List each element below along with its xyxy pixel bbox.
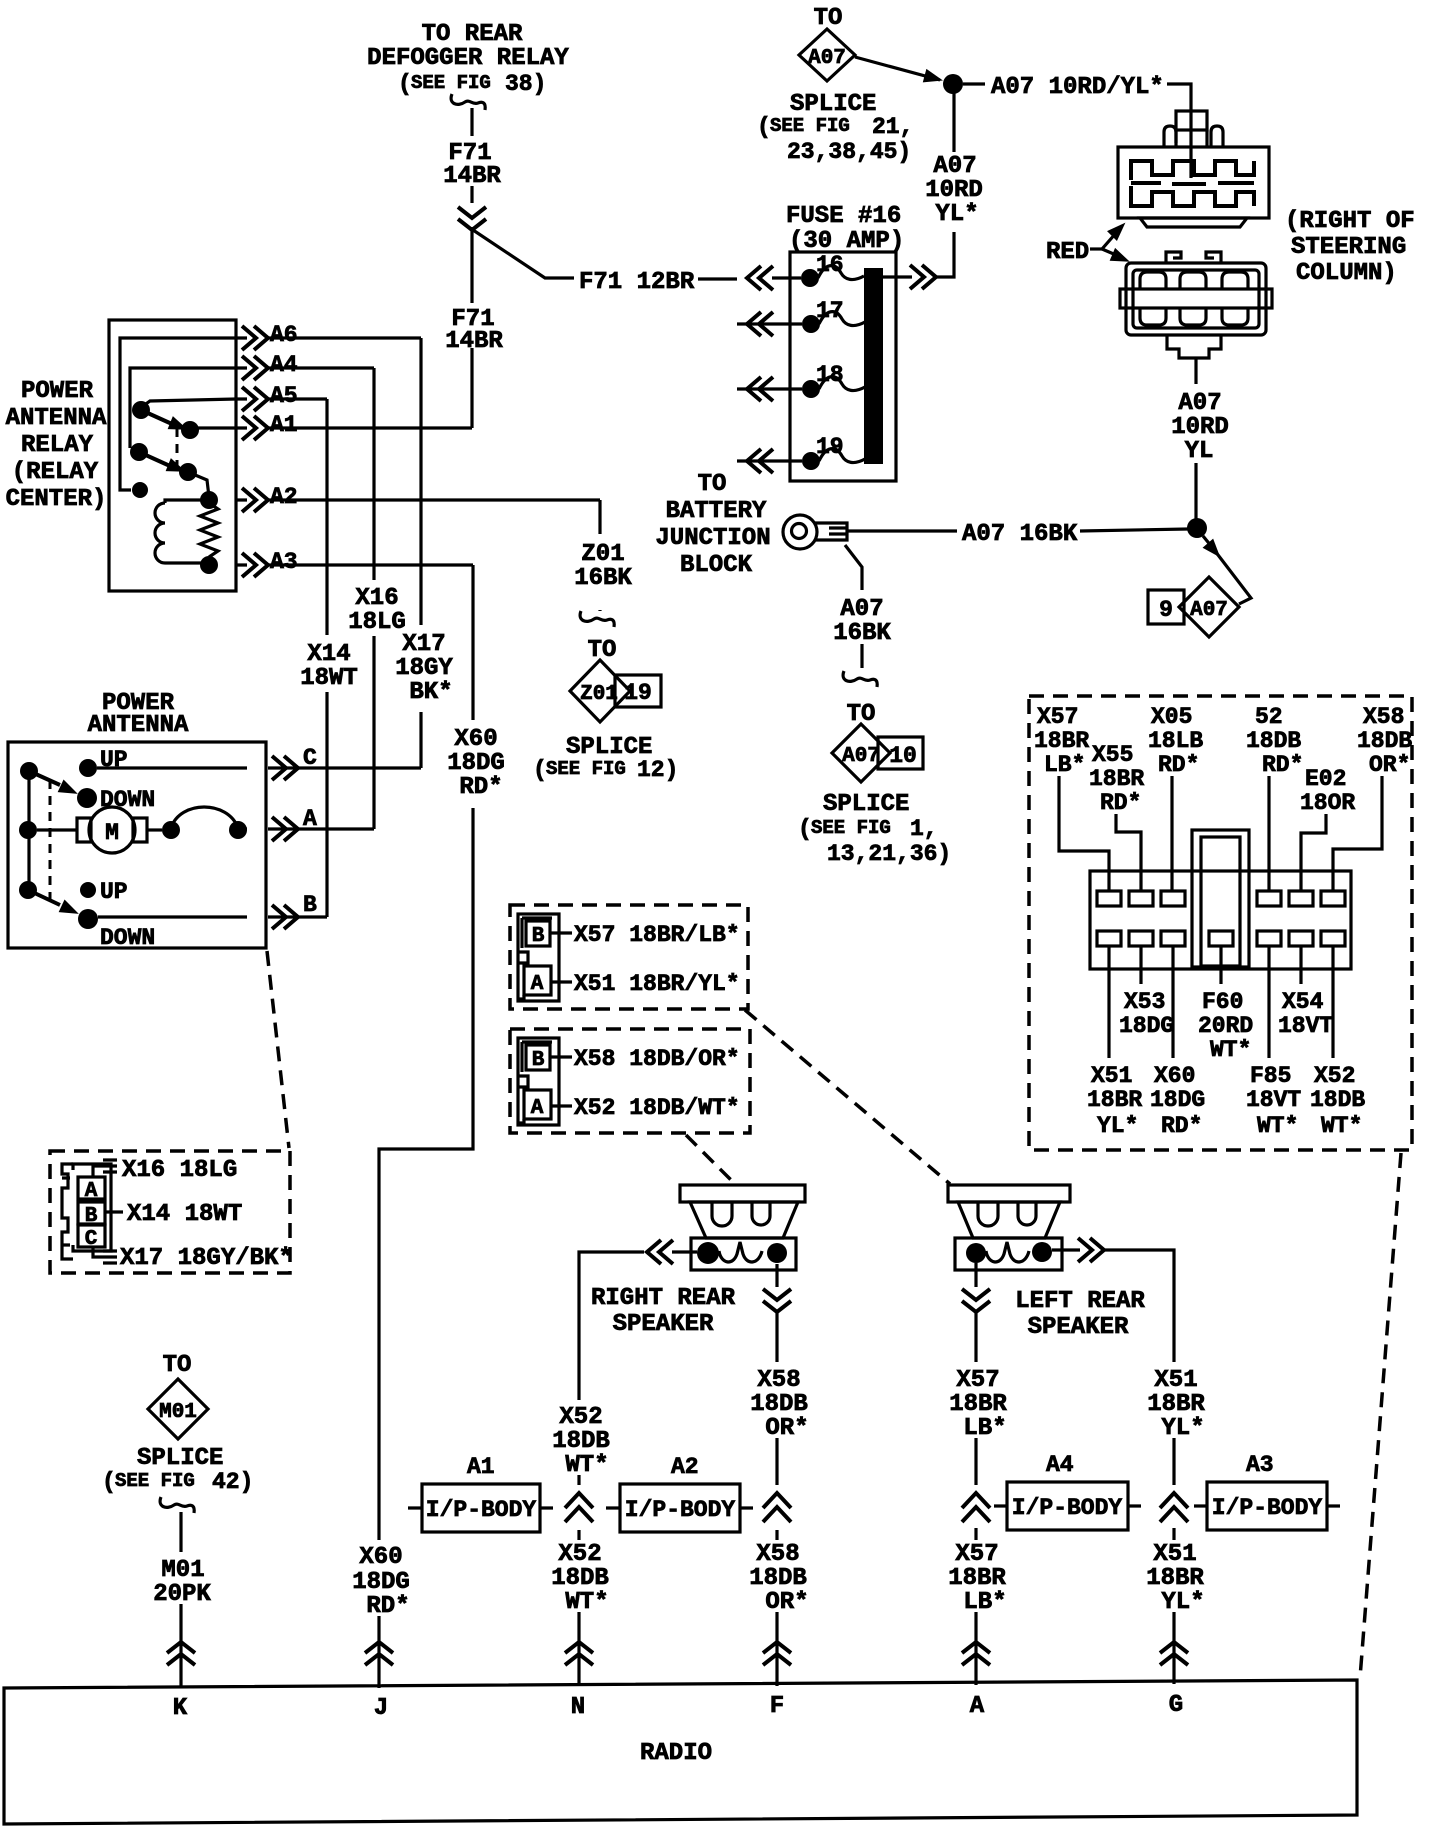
svg-text:18WT: 18WT	[300, 665, 358, 692]
connector box X58/X52 (dashed)	[510, 1029, 750, 1133]
svg-text:LB*: LB*	[1044, 752, 1085, 778]
fuse bus bar	[864, 268, 883, 464]
svg-text:I/P-BODY: I/P-BODY	[1212, 1495, 1323, 1521]
svg-text:WT*: WT*	[1257, 1113, 1298, 1139]
dashed link box1 to left speaker	[745, 1010, 950, 1184]
wire pin B from DOWN contact	[98, 915, 327, 918]
svg-text:A07: A07	[842, 745, 880, 768]
svg-text:18DB: 18DB	[749, 1565, 807, 1592]
svg-text:A07 16BK: A07 16BK	[962, 521, 1078, 548]
svg-text:ANTENNA: ANTENNA	[6, 405, 107, 432]
svg-text:M01: M01	[161, 1557, 204, 1584]
svg-text:18BR: 18BR	[1147, 1391, 1205, 1418]
wire break Z01	[580, 611, 614, 627]
svg-text:RD*: RD*	[459, 774, 502, 801]
svg-text:18BR: 18BR	[1089, 766, 1144, 792]
svg-text:21,: 21,	[872, 114, 913, 140]
svg-text:JUNCTION: JUNCTION	[655, 525, 770, 552]
wire X51 pin down	[1107, 946, 1110, 1058]
label X54 18VT	[1278, 989, 1333, 1039]
label SPLICE (SEE FIG 21, 23,38,45)	[757, 91, 913, 165]
svg-text:BATTERY: BATTERY	[666, 498, 767, 525]
splice M01	[148, 1352, 208, 1439]
svg-text:18LB: 18LB	[1148, 728, 1203, 754]
junction dot A07	[1187, 518, 1207, 538]
label 52 18DB RD*	[1246, 704, 1303, 778]
connector body B/A 2	[518, 1038, 559, 1125]
connector box X57/X51 (dashed)	[510, 905, 748, 1009]
label E02 18OR	[1300, 766, 1355, 816]
label SPLICE (SEE FIG 42)	[102, 1445, 253, 1495]
wire X54 pin down	[1299, 946, 1302, 984]
radio inline connector on K	[167, 1642, 195, 1665]
svg-text:TO: TO	[163, 1352, 192, 1379]
antenna connector pin C	[78, 1225, 105, 1247]
svg-text:B: B	[532, 1049, 545, 1072]
svg-text:18DG: 18DG	[447, 750, 505, 777]
inline connector I/P row on wire G	[1160, 1493, 1188, 1522]
wire F85 pin down	[1267, 946, 1270, 1058]
svg-text:DEFOGGER RELAY: DEFOGGER RELAY	[367, 45, 569, 72]
svg-text:9: 9	[1159, 597, 1173, 623]
svg-text:M: M	[105, 820, 119, 846]
svg-text:18DB: 18DB	[552, 1428, 610, 1455]
svg-text:A07: A07	[1178, 390, 1221, 417]
svg-text:LEFT REAR: LEFT REAR	[1015, 1288, 1145, 1315]
splice Z01-19 diamond	[570, 637, 661, 722]
label TO REAR DEFOGGER RELAY	[367, 21, 569, 97]
pin B X57	[526, 921, 550, 946]
svg-text:UP: UP	[100, 879, 128, 905]
svg-text:G: G	[1169, 1692, 1183, 1719]
power antenna relay box	[109, 320, 236, 591]
radio inline connector on G	[1160, 1642, 1188, 1665]
label X57 18BR LB*	[1034, 704, 1089, 778]
svg-text:A6: A6	[270, 322, 298, 348]
svg-text:RD*: RD*	[1161, 1113, 1202, 1139]
svg-text:X05: X05	[1151, 704, 1192, 730]
svg-text:I/P-BODY: I/P-BODY	[625, 1497, 736, 1523]
svg-text:WT*: WT*	[1321, 1113, 1362, 1139]
label SPLICE (SEE FIG 12)	[533, 734, 678, 783]
left rear speaker	[948, 1185, 1070, 1270]
svg-text:SPLICE: SPLICE	[823, 791, 909, 818]
connector pins top row	[1097, 891, 1345, 906]
splice junction dot A07	[943, 74, 963, 94]
svg-text:X57 18BR/LB*: X57 18BR/LB*	[574, 922, 740, 948]
svg-text:B: B	[303, 892, 317, 918]
svg-text:A: A	[531, 1097, 544, 1120]
svg-text:N: N	[571, 1694, 585, 1721]
dashed link antenna box to connector box	[267, 951, 289, 1148]
svg-text:FUSE #16: FUSE #16	[786, 203, 901, 230]
steering column lower connector	[1120, 252, 1272, 358]
svg-text:SPLICE: SPLICE	[790, 91, 876, 118]
svg-text:23,38,45): 23,38,45)	[787, 139, 911, 165]
dashed link radio connector box to radio	[1360, 1153, 1401, 1678]
antenna switch pole column	[27, 771, 30, 890]
splice A07 diamond top	[799, 5, 855, 81]
wire F71 14BR upper	[470, 108, 473, 136]
pin A X52	[524, 1090, 551, 1119]
svg-text:WT*: WT*	[1210, 1037, 1251, 1063]
connector box X16/X14/X17 (dashed)	[50, 1151, 290, 1273]
wire X58 to pin	[1333, 776, 1382, 891]
svg-text:X16: X16	[355, 585, 398, 612]
svg-text:X60: X60	[454, 726, 497, 753]
fuse 18	[737, 362, 865, 398]
svg-text:A2: A2	[671, 1454, 699, 1480]
svg-text:X58: X58	[1363, 704, 1404, 730]
pin A X51	[524, 966, 551, 995]
svg-text:DOWN: DOWN	[100, 925, 155, 951]
wire A07 10RD/YL* to steering column connector	[963, 82, 985, 85]
svg-text:18DG: 18DG	[1150, 1087, 1205, 1113]
svg-text:J: J	[374, 1695, 388, 1722]
svg-text:X14 18WT: X14 18WT	[127, 1201, 242, 1228]
svg-text:A: A	[531, 973, 544, 996]
svg-text:X58: X58	[756, 1541, 799, 1568]
svg-text:YL: YL	[1185, 438, 1214, 465]
svg-text:X51: X51	[1154, 1367, 1197, 1394]
svg-text:20RD: 20RD	[1198, 1013, 1253, 1039]
label POWER ANTENNA	[88, 690, 189, 739]
svg-text:RD*: RD*	[1100, 790, 1141, 816]
relay contact dot on A1	[181, 421, 199, 439]
dashed link box2 to right speaker	[686, 1135, 734, 1183]
svg-text:YL*: YL*	[935, 201, 978, 228]
antenna switch blade 1	[29, 771, 60, 785]
svg-text:16BK: 16BK	[574, 565, 632, 592]
wire E02 to pin	[1301, 814, 1326, 891]
I/P-BODY A2	[606, 1454, 753, 1532]
svg-text:20PK: 20PK	[153, 1581, 211, 1608]
inline connector I/P row on wire A	[962, 1493, 990, 1522]
wire M01 20PK to radio pin K	[179, 1512, 182, 1552]
svg-text:SEE FIG: SEE FIG	[115, 1470, 195, 1492]
wire X60 pin down	[1171, 946, 1174, 1058]
svg-text:X60: X60	[359, 1544, 402, 1571]
svg-text:I/P-BODY: I/P-BODY	[426, 1497, 537, 1523]
svg-text:52: 52	[1255, 704, 1283, 730]
svg-text:A07 10RD/YL*: A07 10RD/YL*	[991, 74, 1164, 101]
fuse box	[790, 252, 896, 481]
relay pin A4	[236, 366, 374, 369]
svg-text:RADIO: RADIO	[640, 1740, 712, 1767]
label F85 18VT WT*	[1246, 1063, 1301, 1139]
right rear speaker	[680, 1185, 805, 1270]
svg-text:16BK: 16BK	[833, 620, 891, 647]
wire Z01 16BK (A2 to splice)	[598, 500, 601, 611]
label X60 18DG RD*	[1150, 1063, 1205, 1139]
svg-text:YL*: YL*	[1097, 1113, 1138, 1139]
relay switch blade 2	[139, 452, 170, 466]
svg-text:ANTENNA: ANTENNA	[88, 712, 189, 739]
svg-text:X52: X52	[1314, 1063, 1355, 1089]
svg-text:18BR: 18BR	[1146, 1565, 1204, 1592]
relay blade mechanical link (dashed)	[176, 428, 179, 472]
svg-text:YL*: YL*	[1161, 1415, 1204, 1442]
wire A07 10RD YL from column connector	[1194, 358, 1197, 384]
wire X57 down from left speaker	[974, 1263, 977, 1287]
radio inline connector on A	[962, 1642, 990, 1665]
connector pins bottom row	[1097, 931, 1345, 946]
svg-text:A: A	[303, 806, 317, 832]
svg-text:LB*: LB*	[963, 1589, 1006, 1616]
wire X14 18WT vertical (A5 to pin B)	[325, 399, 328, 917]
svg-text:A4: A4	[1046, 1452, 1074, 1478]
svg-text:X60: X60	[1154, 1063, 1195, 1089]
svg-text:A5: A5	[270, 383, 298, 409]
svg-text:X58 18DB/OR*: X58 18DB/OR*	[574, 1046, 740, 1072]
svg-text:A3: A3	[270, 549, 298, 575]
svg-text:A07: A07	[808, 47, 846, 70]
label X55 18BR RD*	[1089, 742, 1144, 816]
svg-text:X51: X51	[1091, 1063, 1132, 1089]
svg-text:WT*: WT*	[565, 1589, 608, 1616]
svg-text:18BR: 18BR	[948, 1565, 1006, 1592]
label X52 18DB WT*	[1310, 1063, 1365, 1139]
wire from junction to splice 9-A07	[1203, 536, 1212, 547]
splice symbol 9 A07	[1148, 577, 1239, 637]
svg-text:X51: X51	[1153, 1541, 1196, 1568]
svg-text:12): 12)	[637, 757, 678, 783]
svg-text:BLOCK: BLOCK	[680, 552, 753, 579]
svg-text:X57: X57	[955, 1541, 998, 1568]
wire break above A07 splice	[843, 671, 877, 687]
label TO BATTERY JUNCTION BLOCK	[655, 471, 770, 579]
svg-text:OR*: OR*	[1369, 752, 1410, 778]
antenna switch link dashed	[49, 780, 52, 903]
radio inline connector on J	[365, 1642, 393, 1665]
wire label X60 18DG RD* bottom (pin J)	[352, 1544, 410, 1620]
label F60 20RD WT*	[1198, 989, 1253, 1063]
relay contact wire from A4	[130, 368, 236, 448]
svg-text:A3: A3	[1246, 1452, 1274, 1478]
svg-text:RD*: RD*	[1262, 752, 1303, 778]
svg-text:F60: F60	[1202, 989, 1243, 1015]
svg-text:18DG: 18DG	[1119, 1013, 1174, 1039]
svg-text:A1: A1	[467, 1454, 495, 1480]
label RIGHT REAR SPEAKER	[591, 1285, 736, 1338]
radio inline connector on F	[763, 1642, 791, 1665]
fuse 17	[737, 298, 865, 333]
label X05 18LB RD*	[1148, 704, 1203, 778]
svg-text:X54: X54	[1282, 989, 1324, 1015]
svg-text:WT*: WT*	[565, 1452, 608, 1479]
svg-text:14BR: 14BR	[445, 328, 503, 355]
svg-text:10: 10	[889, 743, 917, 769]
relay contact wire from A6	[120, 338, 236, 490]
svg-text:I/P-BODY: I/P-BODY	[1012, 1495, 1123, 1521]
svg-text:18OR: 18OR	[1300, 790, 1355, 816]
wire pin C from UP contact	[97, 766, 421, 769]
svg-text:F71 12BR: F71 12BR	[579, 269, 695, 296]
svg-text:(RELAY: (RELAY	[12, 459, 99, 486]
svg-text:18VT: 18VT	[1278, 1013, 1333, 1039]
svg-text:X17: X17	[402, 631, 445, 658]
wire label A07 10RD YL*	[925, 153, 983, 228]
I/P-BODY A3	[1194, 1452, 1340, 1530]
label POWER ANTENNA RELAY (RELAY CENTER)	[6, 378, 107, 513]
svg-text:X57: X57	[956, 1367, 999, 1394]
svg-text:A4: A4	[270, 352, 298, 378]
svg-text:RD*: RD*	[1158, 752, 1199, 778]
svg-text:A2: A2	[270, 484, 298, 510]
svg-text:14BR: 14BR	[443, 163, 501, 190]
wire X05 to pin	[1170, 776, 1173, 891]
wire 52 to pin	[1267, 776, 1270, 891]
antenna UP contact 1	[79, 759, 97, 777]
svg-text:(: (	[533, 757, 547, 783]
wire stub X14 18WT	[105, 1210, 123, 1213]
svg-text:(: (	[102, 1469, 116, 1495]
svg-text:18DB: 18DB	[1357, 728, 1412, 754]
svg-text:C: C	[303, 745, 317, 771]
svg-text:RED: RED	[1046, 239, 1089, 266]
wire X57 to pin	[1059, 776, 1109, 891]
svg-text:COLUMN): COLUMN)	[1296, 260, 1397, 287]
svg-text:(RIGHT OF: (RIGHT OF	[1285, 208, 1415, 235]
svg-text:X55: X55	[1092, 742, 1133, 768]
svg-text:18DB: 18DB	[1246, 728, 1301, 754]
svg-text:SEE FIG: SEE FIG	[546, 758, 626, 780]
wire label X58 18DB OR* bottom (pin F)	[749, 1541, 808, 1616]
connector body B/A 1	[518, 914, 559, 1001]
svg-text:CENTER): CENTER)	[6, 486, 107, 513]
I/P-BODY A4	[994, 1452, 1141, 1530]
svg-text:38): 38)	[505, 71, 546, 97]
svg-text:1,: 1,	[910, 816, 938, 842]
antenna DOWN contact 1	[77, 788, 97, 808]
wire label X51 18BR YL* bottom (pin G)	[1146, 1541, 1204, 1616]
svg-text:18LG: 18LG	[348, 609, 406, 636]
svg-text:C: C	[85, 1228, 98, 1251]
wire F71 12BR branch to fuse 16	[473, 230, 574, 278]
antenna UP contact 2	[80, 882, 96, 898]
relay pin A5	[236, 397, 327, 400]
svg-text:SEE FIG: SEE FIG	[770, 115, 850, 137]
svg-text:X14: X14	[307, 641, 350, 668]
svg-text:A07: A07	[840, 596, 883, 623]
svg-text:(: (	[757, 114, 771, 140]
steering column upper connector	[1118, 111, 1269, 227]
wire A07 16BK horizontal	[848, 529, 957, 532]
svg-text:X16 18LG: X16 18LG	[122, 1157, 237, 1184]
svg-text:X17 18GY/BK*: X17 18GY/BK*	[120, 1245, 293, 1272]
fuse 16	[801, 252, 864, 287]
wire F71 14BR lower to A1	[470, 227, 473, 428]
svg-text:YL*: YL*	[1161, 1589, 1204, 1616]
svg-text:TO: TO	[698, 471, 727, 498]
svg-text:Z01: Z01	[581, 541, 624, 568]
svg-text:(: (	[398, 71, 412, 97]
wire X51 from left speaker to radio pin G	[1052, 1248, 1080, 1251]
svg-text:SEE FIG: SEE FIG	[811, 817, 891, 839]
svg-text:X53: X53	[1124, 989, 1165, 1015]
inline connector I/P row on wire N	[565, 1493, 593, 1522]
wire stub X16 18LG	[93, 1160, 117, 1177]
relay pin A2	[236, 498, 600, 501]
wire X52 pin down	[1331, 946, 1334, 1058]
svg-text:DOWN: DOWN	[100, 787, 155, 813]
svg-text:M01: M01	[159, 1401, 197, 1424]
svg-text:F85: F85	[1250, 1063, 1291, 1089]
fuse16 output wire to splice	[883, 275, 912, 278]
wire X58 down from right speaker	[775, 1264, 778, 1287]
svg-text:10RD: 10RD	[925, 177, 983, 204]
svg-text:F: F	[770, 1693, 784, 1720]
svg-text:OR*: OR*	[765, 1589, 808, 1616]
arrow from A07 splice to junction dot	[855, 57, 940, 80]
svg-text:BK*: BK*	[409, 679, 452, 706]
svg-text:X57: X57	[1037, 704, 1078, 730]
wire label X52 18DB WT* bottom (pin N)	[551, 1541, 609, 1616]
svg-text:RIGHT REAR: RIGHT REAR	[591, 1285, 736, 1312]
relay pin A1	[236, 426, 472, 429]
I/P-BODY A1	[408, 1454, 553, 1532]
svg-text:STEERING: STEERING	[1291, 234, 1406, 261]
wire X52 from right speaker to radio pin N	[672, 1250, 697, 1253]
svg-text:18GY: 18GY	[395, 655, 453, 682]
svg-text:POWER: POWER	[21, 378, 94, 405]
svg-text:SPLICE: SPLICE	[137, 1445, 223, 1472]
svg-text:X58: X58	[757, 1367, 800, 1394]
svg-text:18BR: 18BR	[1087, 1087, 1142, 1113]
svg-text:(: (	[798, 816, 812, 842]
radio connector body	[1090, 871, 1351, 969]
wire A07 16BK down from ring terminal	[845, 545, 862, 590]
label RED with arrows	[1046, 218, 1133, 269]
svg-text:X52 18DB/WT*: X52 18DB/WT*	[574, 1095, 740, 1121]
svg-text:18DB: 18DB	[1310, 1087, 1365, 1113]
pin B X58	[526, 1045, 550, 1070]
svg-text:13,21,36): 13,21,36)	[827, 841, 951, 867]
antenna motor M	[37, 807, 162, 853]
fuse 19	[737, 434, 865, 470]
wire pin A	[238, 827, 374, 830]
wire X17 18GY/BK* vertical (A6 to pin C)	[419, 338, 422, 768]
svg-text:OR*: OR*	[765, 1415, 808, 1442]
wire X60 18DG RD* vertical (A3 down)	[379, 565, 473, 1540]
antenna connector body	[62, 1164, 111, 1259]
inline connector on F71	[458, 207, 486, 230]
wire X55 to pin	[1116, 814, 1141, 891]
radio connector box (dashed)	[1029, 696, 1412, 1150]
wire break M01	[160, 1497, 194, 1513]
splice A07-10 diamond	[832, 701, 923, 782]
svg-text:42): 42)	[212, 1469, 253, 1495]
svg-text:10RD: 10RD	[1171, 414, 1229, 441]
svg-text:18BR: 18BR	[949, 1391, 1007, 1418]
svg-text:18BR: 18BR	[1034, 728, 1089, 754]
power antenna box	[8, 742, 266, 948]
svg-text:A1: A1	[270, 412, 298, 438]
svg-text:18DB: 18DB	[750, 1391, 808, 1418]
antenna connector pin B	[78, 1202, 105, 1224]
motor link arc	[162, 821, 180, 839]
svg-text:K: K	[173, 1695, 188, 1722]
relay pin A3	[236, 563, 473, 566]
antenna connector pin A	[78, 1177, 105, 1199]
svg-text:RD*: RD*	[366, 1593, 409, 1620]
relay switch pole from A5	[143, 399, 236, 406]
svg-text:A07: A07	[1190, 599, 1228, 622]
svg-text:X51 18BR/YL*: X51 18BR/YL*	[574, 971, 740, 997]
wire stub X17 18GY/BK*	[93, 1247, 117, 1263]
svg-text:18DG: 18DG	[352, 1569, 410, 1596]
label LEFT REAR SPEAKER	[1015, 1288, 1145, 1341]
